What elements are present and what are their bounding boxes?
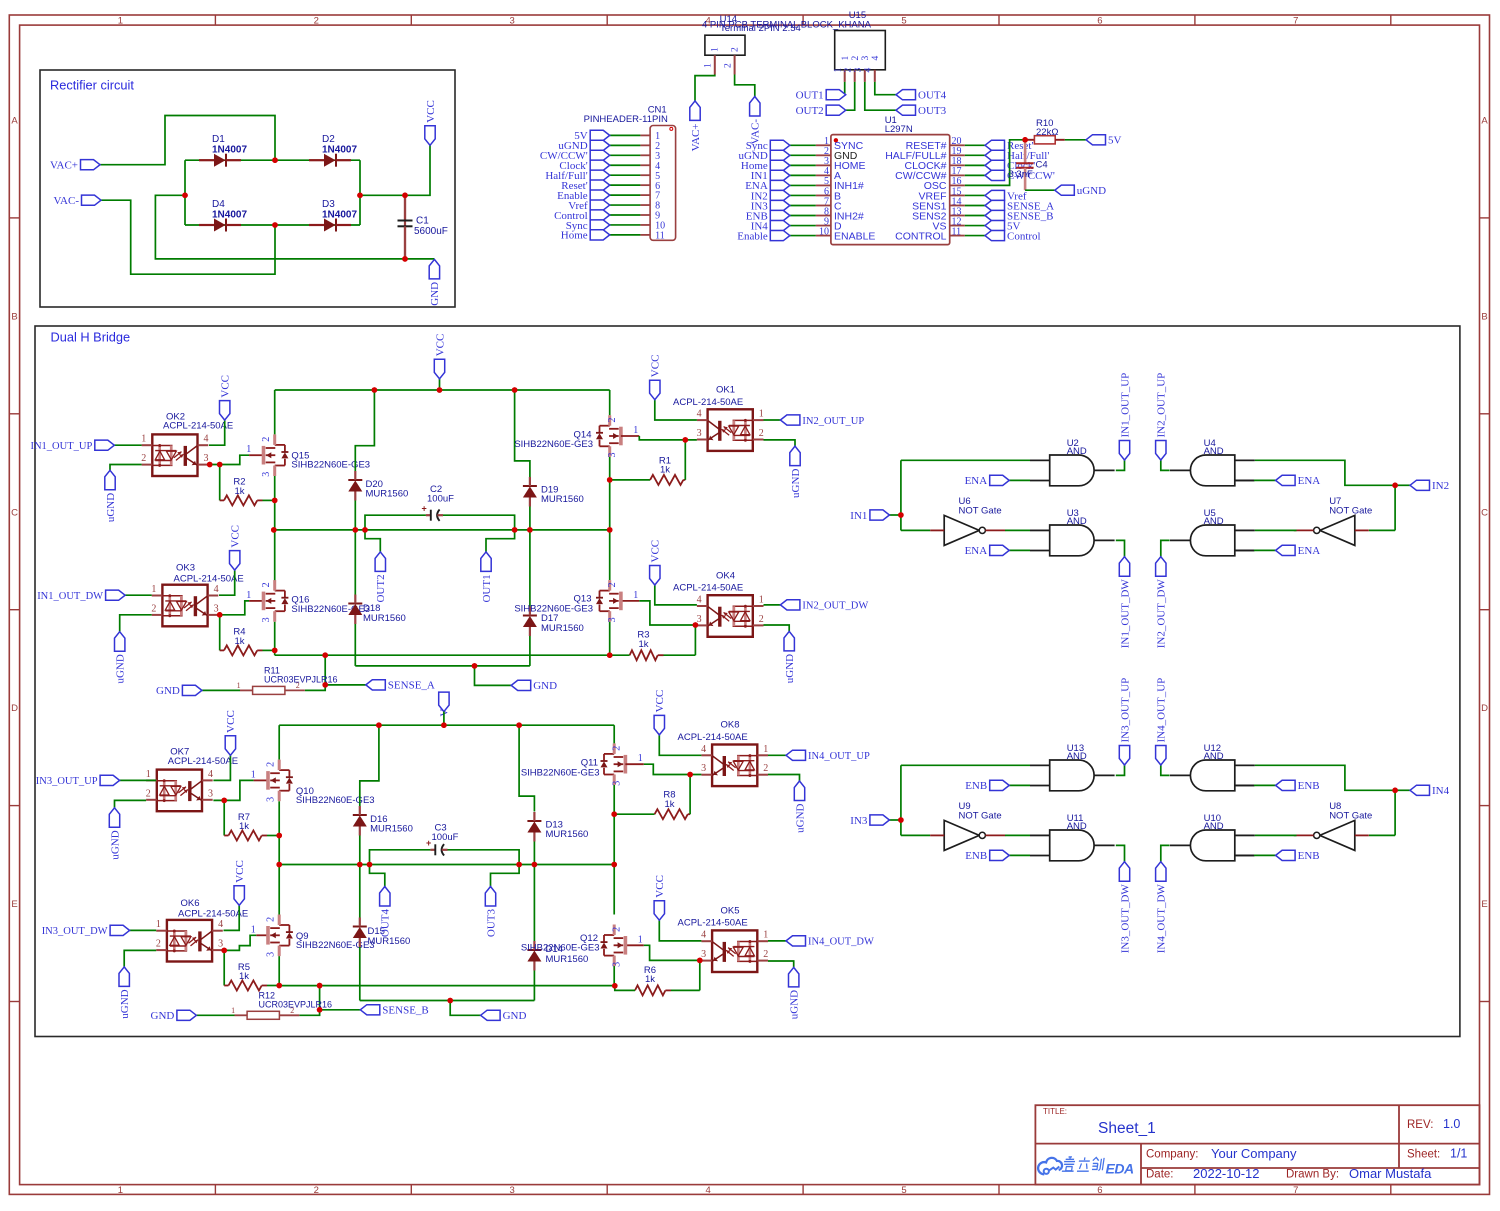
svg-text:ENA: ENA	[965, 545, 988, 557]
flag Clock' at U1 right	[985, 160, 1005, 170]
dual h bridge box	[35, 326, 1460, 1037]
wire VCC to OK1 pin4	[655, 400, 697, 420]
wire IN4 vertical	[1394, 790, 1396, 835]
flag IN3 at U1 left	[770, 200, 790, 210]
wire VAC- to bridge bottom	[101, 200, 275, 274]
CN1 pin 10 Sync	[640, 224, 650, 226]
svg-text:1: 1	[834, 68, 844, 73]
flag GND right top bridge	[511, 680, 531, 690]
svg-text:D1: D1	[212, 134, 225, 145]
junction lower rail D13	[516, 722, 522, 728]
wire D17 column	[529, 530, 531, 607]
svg-text:2: 2	[731, 47, 741, 52]
wire U5 output	[1161, 540, 1170, 556]
optocoupler OK6 ACPL-214-50AE	[167, 920, 212, 962]
U1 pin 8 INH2#	[816, 215, 831, 217]
wire IN1 to AND U2	[901, 459, 1030, 461]
svg-text:IN3_OUT_UP: IN3_OUT_UP	[36, 776, 98, 787]
AND gate U13	[1050, 760, 1094, 791]
power flag uGND OK8	[794, 781, 804, 801]
wire IN2 vertical	[1394, 485, 1396, 530]
junction D16 mid rail	[357, 862, 363, 868]
svg-text:4 PIN PCB TERMINAL BLOCK_KHANA: 4 PIN PCB TERMINAL BLOCK_KHANA	[702, 19, 872, 30]
svg-text:ACPL-214-50AE: ACPL-214-50AE	[673, 583, 743, 594]
wire D18 column	[354, 530, 356, 595]
AND gate U3	[1050, 525, 1094, 556]
junction IN2	[1392, 483, 1398, 489]
svg-text:MUR1560: MUR1560	[370, 824, 413, 835]
svg-text:SIHB22N60E-GE3: SIHB22N60E-GE3	[291, 460, 370, 471]
svg-text:uGND: uGND	[784, 654, 796, 683]
wire OUT1 branch	[486, 530, 515, 552]
flag ENB at U12	[1235, 784, 1254, 786]
flag IN3_OUT_DW	[130, 929, 157, 931]
wire OK8 pin2 to uGND	[768, 775, 800, 782]
junction IN1	[898, 512, 904, 518]
wire VCC rail lower bridge	[279, 724, 614, 726]
svg-text:IN4_OUT_UP: IN4_OUT_UP	[1156, 678, 1168, 743]
flag IN2 at U1 left	[770, 190, 790, 200]
wire VCC to OK8 pin4	[659, 735, 701, 755]
svg-text:OK3: OK3	[176, 563, 195, 574]
transistor Q16 SIHB22N60E-GE3	[262, 592, 266, 611]
wire OK6 pin2 to uGND	[124, 950, 156, 967]
svg-text:1: 1	[841, 56, 851, 61]
svg-text:Home: Home	[561, 230, 588, 242]
flag GND right lower bridge	[481, 1010, 501, 1020]
svg-text:SIHB22N60E-GE3: SIHB22N60E-GE3	[521, 767, 600, 778]
svg-text:C1: C1	[416, 216, 429, 227]
resistor R10	[1026, 139, 1034, 141]
wire IN4 to AND U12	[1255, 765, 1395, 790]
wire U13 output	[1116, 765, 1125, 775]
svg-text:6: 6	[1097, 15, 1102, 26]
svg-text:REV:: REV:	[1407, 1119, 1433, 1131]
wire source row top bridge	[275, 654, 610, 656]
wire U9 output to U11	[1005, 834, 1030, 836]
svg-text:IN3: IN3	[850, 815, 868, 827]
svg-text:ENB: ENB	[965, 780, 987, 792]
svg-text:VCC: VCC	[220, 375, 232, 398]
svg-text:3: 3	[261, 472, 272, 477]
junction R7 source	[276, 833, 282, 839]
flag ENB at U13	[1009, 784, 1030, 786]
wire OK4 pin1 to flag	[764, 604, 781, 606]
flag uGND at U1 left	[770, 150, 790, 160]
flag ENB at U10	[1235, 854, 1254, 856]
wire Q12 gate	[625, 944, 643, 946]
diode D2	[335, 154, 337, 167]
wire R7 branch	[223, 800, 225, 835]
optocoupler OK5 ACPL-214-50AE	[712, 930, 757, 972]
wire D15 column	[359, 865, 361, 918]
power flag VCC OK1	[650, 380, 660, 400]
svg-text:D: D	[11, 703, 18, 714]
svg-text:1: 1	[633, 590, 638, 601]
svg-text:OUT3: OUT3	[485, 909, 497, 938]
wire D19 column	[515, 390, 530, 477]
svg-text:1N4007: 1N4007	[322, 210, 357, 221]
transistor Q10 SIHB22N60E-GE3	[266, 771, 270, 790]
svg-text:NOT Gate: NOT Gate	[959, 810, 1002, 821]
CN1 pin 1 5V	[640, 134, 650, 136]
svg-text:2: 2	[612, 927, 623, 932]
flag VAC+ top	[690, 101, 700, 121]
wire diode row2	[185, 224, 360, 226]
svg-text:EDA: EDA	[1106, 1161, 1134, 1177]
wire VCC to OK2 pin4	[209, 420, 225, 445]
svg-text:AND: AND	[1204, 516, 1224, 527]
flag 5V at U1 right	[985, 220, 1005, 230]
flag SENSE_B at U1 right	[985, 210, 1005, 220]
svg-text:VAC-: VAC-	[54, 195, 80, 207]
svg-text:IN4: IN4	[1432, 785, 1450, 797]
transistor Q13 SIHB22N60E-GE3	[619, 592, 623, 611]
wire bottom return	[155, 195, 405, 259]
svg-text:L297N: L297N	[885, 124, 913, 135]
power flag VCC rectifier	[425, 126, 435, 146]
junction sense drop lower bottom	[317, 1007, 323, 1013]
U1 pin 11 CONTROL	[950, 235, 965, 237]
wire R5 branch	[223, 950, 225, 985]
svg-text:1N4007: 1N4007	[212, 145, 247, 156]
svg-text:NOT Gate: NOT Gate	[1329, 810, 1372, 821]
svg-text:2: 2	[141, 453, 146, 464]
wire U15 pin1 to OUT1	[845, 82, 846, 95]
junction VCC rail D19	[512, 387, 518, 393]
svg-text:3: 3	[266, 952, 277, 957]
svg-text:+: +	[422, 504, 427, 514]
svg-text:IN2: IN2	[1432, 480, 1449, 492]
optocoupler OK3 ACPL-214-50AE	[162, 585, 207, 627]
svg-text:1: 1	[638, 753, 643, 764]
svg-text:SIHB22N60E-GE3: SIHB22N60E-GE3	[521, 943, 600, 954]
svg-text:2: 2	[759, 428, 764, 439]
svg-text:4: 4	[705, 1185, 710, 1196]
U1 pin 13 SENS2	[950, 215, 965, 217]
flag IN1_OUT_DW	[125, 594, 152, 596]
svg-text:B: B	[11, 311, 17, 322]
svg-text:NOT Gate: NOT Gate	[959, 505, 1002, 516]
svg-text:1: 1	[141, 434, 146, 445]
svg-text:3: 3	[510, 1185, 515, 1196]
junction VCC rail D20	[372, 387, 378, 393]
transistor Q15 SIHB22N60E-GE3	[262, 446, 266, 465]
junction node OSC	[1022, 137, 1028, 143]
svg-text:1/1: 1/1	[1450, 1147, 1467, 1161]
svg-text:3: 3	[266, 797, 277, 802]
junction OK7 pin3	[221, 798, 227, 804]
U14 pin 2	[734, 55, 736, 74]
wire OK1 pin2 to uGND	[764, 440, 796, 446]
power flag uGND OK6	[119, 967, 129, 987]
junction sense drop bottom	[322, 682, 328, 688]
svg-text:2: 2	[146, 788, 151, 799]
svg-text:ACPL-214-50AE: ACPL-214-50AE	[168, 756, 238, 767]
wire right rail	[359, 160, 361, 225]
svg-text:Dual H Bridge: Dual H Bridge	[51, 330, 131, 345]
wire C2 left	[365, 515, 426, 530]
svg-text:+: +	[426, 838, 431, 848]
junction C2 mid rail	[512, 527, 518, 533]
svg-text:1k: 1k	[239, 821, 249, 832]
svg-text:D3: D3	[322, 199, 335, 210]
svg-text:AND: AND	[1067, 446, 1087, 457]
svg-text:2: 2	[844, 68, 854, 73]
svg-text:Control: Control	[1007, 230, 1041, 242]
svg-text:Omar Mustafa: Omar Mustafa	[1349, 1166, 1432, 1181]
svg-text:1k: 1k	[660, 465, 670, 476]
wire R4 branch	[219, 615, 221, 651]
wire D20 column	[355, 390, 374, 471]
wire U6 output to U3	[1005, 529, 1030, 531]
flag IN3	[889, 819, 901, 821]
connector CN1 PINHEADER-11PIN	[650, 126, 676, 241]
svg-text:1: 1	[156, 919, 161, 930]
wire IN1 vertical	[900, 460, 902, 530]
wire OK2 pin3 to Q15 gate	[209, 455, 249, 464]
junction R2 source	[272, 498, 278, 504]
CN1 pin 5 Half/Full'	[640, 174, 650, 176]
svg-text:11: 11	[655, 231, 665, 242]
junction C3 mid rail	[516, 862, 522, 868]
flag IN1 at U1 left	[770, 170, 790, 180]
flag Sync at U1 left	[770, 140, 790, 150]
svg-text:MUR1560: MUR1560	[546, 829, 589, 840]
svg-text:AND: AND	[1204, 821, 1224, 832]
frame column ticks	[215, 15, 1390, 1194]
wire D13 column	[519, 725, 534, 811]
flag OUT4 top	[896, 90, 916, 100]
svg-text:VCC: VCC	[650, 540, 662, 563]
svg-text:Sheet_1: Sheet_1	[1098, 1120, 1156, 1137]
svg-text:D2: D2	[322, 134, 335, 145]
svg-text:Rectifier circuit: Rectifier circuit	[50, 78, 134, 93]
power flag uGND OK7	[109, 808, 119, 828]
junction IN3	[898, 817, 904, 823]
wire OK6 pin3 to Q9 gate	[224, 935, 257, 950]
svg-text:ACPL-214-50AE: ACPL-214-50AE	[163, 421, 233, 432]
svg-text:ACPL-214-50AE: ACPL-214-50AE	[673, 397, 743, 408]
svg-text:1: 1	[118, 15, 123, 26]
wire R1 to OK1 pin3	[683, 479, 685, 481]
wire sense drop top bridge	[324, 655, 326, 685]
NOT gate U6	[901, 529, 930, 531]
svg-text:VAC+: VAC+	[690, 123, 702, 151]
svg-text:IN2_OUT_DW: IN2_OUT_DW	[1156, 579, 1168, 649]
junction D20 mid rail	[353, 527, 359, 533]
CN1 pin 11 Home	[640, 234, 650, 236]
svg-text:OK6: OK6	[181, 898, 200, 909]
flag IN4_OUT_UP	[1156, 746, 1166, 766]
junction GND row drop	[472, 663, 478, 669]
svg-text:1N4007: 1N4007	[212, 210, 247, 221]
wire U7 output to U5	[1255, 529, 1297, 531]
svg-text:VCC: VCC	[654, 690, 666, 713]
svg-text:2: 2	[759, 614, 764, 625]
junction OK4 pin3	[693, 622, 699, 628]
svg-text:3: 3	[204, 453, 209, 464]
diode D19 MUR1560	[523, 485, 537, 487]
junction R4 source	[272, 648, 278, 654]
svg-text:3: 3	[261, 617, 272, 622]
svg-text:2: 2	[851, 56, 861, 61]
svg-text:ENA: ENA	[965, 475, 988, 487]
junction node rectifier left	[182, 193, 188, 199]
svg-text:VCC: VCC	[434, 334, 446, 357]
flag ENB at U11	[1009, 854, 1030, 856]
svg-text:AND: AND	[1204, 751, 1224, 762]
svg-text:IN4_OUT_DW: IN4_OUT_DW	[1156, 884, 1168, 954]
rectifier circuit box	[40, 70, 455, 307]
svg-text:VCC: VCC	[654, 875, 666, 898]
flag IN3_OUT_UP	[1119, 746, 1129, 766]
svg-text:1: 1	[704, 63, 714, 68]
svg-text:Drawn By:: Drawn By:	[1286, 1169, 1339, 1181]
svg-text:A: A	[1481, 116, 1488, 127]
optocoupler OK1 ACPL-214-50AE	[708, 409, 753, 451]
power flag VCC top rail	[439, 379, 441, 390]
junction mid rail lower right	[611, 862, 617, 868]
flag IN4 at U1 left	[770, 220, 790, 230]
svg-text:NOT Gate: NOT Gate	[1329, 505, 1372, 516]
resistor R7 1k	[229, 831, 262, 841]
flag ENB at U1 left	[770, 210, 790, 220]
wire C2 right	[443, 515, 515, 530]
svg-text:A: A	[11, 116, 18, 127]
U1 pin 15 VREF	[950, 194, 965, 196]
wire U15 pin3 to OUT3	[865, 82, 896, 110]
svg-text:2: 2	[612, 746, 623, 751]
resistor R1 1k	[610, 479, 650, 481]
wire VCC rail top bridge	[275, 389, 610, 391]
svg-text:OUT2: OUT2	[796, 105, 824, 117]
svg-text:IN3_OUT_UP: IN3_OUT_UP	[1119, 678, 1131, 743]
svg-text:C: C	[1481, 507, 1488, 518]
power flag VCC OK5	[654, 901, 664, 921]
wire U14 pin1 to VAC+	[695, 75, 715, 101]
svg-text:OUT3: OUT3	[918, 105, 947, 117]
junction OK2 pin3 a	[207, 462, 213, 468]
U15 pin 4	[874, 70, 876, 82]
svg-text:5: 5	[901, 1185, 906, 1196]
diode D1	[225, 154, 227, 167]
svg-text:IN3_OUT_DW: IN3_OUT_DW	[1119, 884, 1131, 954]
flag OUT3	[485, 887, 495, 907]
svg-text:5: 5	[901, 15, 906, 26]
svg-text:IN1: IN1	[850, 510, 867, 522]
wire U14 pin2 to VAC-	[735, 75, 755, 97]
svg-text:3: 3	[218, 939, 223, 950]
svg-text:TITLE:: TITLE:	[1043, 1107, 1067, 1116]
svg-text:uGND: uGND	[105, 493, 117, 522]
AND gate U4	[1190, 455, 1234, 486]
svg-text:IN4_OUT_UP: IN4_OUT_UP	[808, 751, 870, 762]
flag IN1_OUT_UP	[1119, 441, 1129, 461]
junction mid rail left	[271, 527, 277, 533]
diode D13 MUR1560	[527, 820, 541, 822]
junction sense drop top	[322, 652, 328, 658]
U1 pin 2 GND	[816, 154, 831, 156]
junction D19 mid rail	[527, 527, 533, 533]
svg-text:IN4_OUT_DW: IN4_OUT_DW	[808, 937, 874, 948]
svg-text:1: 1	[759, 409, 764, 420]
wire OSC to R10 C4 node	[965, 140, 1027, 186]
flag CW/CCW' at U1 right	[985, 170, 1005, 180]
CN1 pin 4 Clock'	[640, 164, 650, 166]
flag Half/Full' at U1 right	[985, 150, 1005, 160]
U1 pin 4 A	[816, 174, 831, 176]
wire GND row top bridge	[355, 665, 530, 667]
wire U15 pin2 to OUT2	[846, 82, 855, 110]
svg-text:Your Company: Your Company	[1211, 1146, 1297, 1161]
flag OUT3 top	[896, 105, 916, 115]
svg-text:7: 7	[1293, 15, 1298, 26]
svg-text:22kΩ: 22kΩ	[1036, 127, 1058, 138]
svg-text:uGND: uGND	[794, 803, 806, 832]
svg-text:2022-10-12: 2022-10-12	[1193, 1166, 1260, 1181]
flag IN4_OUT_DW	[786, 936, 806, 946]
AND gate U10	[1190, 830, 1234, 861]
svg-text:uGND: uGND	[119, 989, 131, 1018]
wire GND branch	[405, 258, 434, 260]
power flag uGND OK2	[105, 470, 115, 490]
svg-text:1: 1	[231, 1006, 235, 1015]
junction node C1 top	[402, 193, 408, 199]
transistor Q11 SIHB22N60E-GE3	[624, 755, 628, 774]
svg-text:ENA: ENA	[1298, 475, 1321, 487]
wire right rail to VCC	[360, 145, 430, 195]
flag IN4_OUT_DW	[1156, 862, 1166, 882]
svg-text:IN1_OUT_UP: IN1_OUT_UP	[30, 441, 92, 452]
svg-text:3: 3	[701, 763, 706, 774]
svg-text:IN3_OUT_DW: IN3_OUT_DW	[42, 926, 108, 937]
resistor R4 1k	[224, 645, 257, 655]
resistor R3 1k	[658, 654, 664, 656]
svg-text:4: 4	[864, 68, 874, 73]
junction OK2 pin3 b	[217, 462, 223, 468]
svg-text:uGND: uGND	[109, 830, 121, 859]
transistor Q9 SIHB22N60E-GE3	[266, 926, 270, 945]
wire R10 to 5V	[1065, 139, 1086, 141]
wire OUT2 branch	[365, 530, 380, 552]
diode D20 MUR1560	[348, 479, 362, 481]
wire GND drop	[475, 666, 512, 686]
svg-text:VCC: VCC	[225, 710, 237, 733]
svg-text:SIHB22N60E-GE3: SIHB22N60E-GE3	[296, 795, 375, 806]
flag GND at R11	[182, 685, 202, 695]
U1 pin 1 SYNC	[816, 144, 831, 146]
svg-text:uGND: uGND	[1077, 185, 1106, 197]
jlc eda logo text	[1062, 1157, 1104, 1171]
svg-text:1: 1	[763, 744, 768, 755]
svg-text:1: 1	[638, 934, 643, 945]
flag SENSE_A	[366, 680, 386, 690]
flag IN1_OUT_UP	[114, 444, 141, 446]
resistor R12 UCR03EVPJLR16	[247, 1011, 279, 1019]
diode D18 MUR1560	[348, 603, 362, 605]
svg-text:2: 2	[607, 418, 618, 423]
power flag VCC OK8	[654, 715, 664, 735]
U1 pin 14 SENS1	[950, 204, 965, 206]
U1 pin 6 B	[816, 194, 831, 196]
svg-text:GND: GND	[151, 1010, 175, 1022]
wire sense drop lower bridge	[319, 986, 321, 1010]
svg-text:1: 1	[151, 584, 156, 595]
power flag VCC OK4	[650, 566, 660, 586]
flag IN2_OUT_UP	[780, 415, 800, 425]
svg-text:MUR1560: MUR1560	[366, 489, 409, 500]
